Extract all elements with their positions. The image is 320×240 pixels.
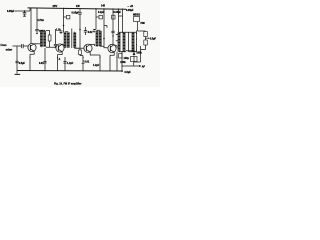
- svg-text:100p: 100p: [124, 57, 130, 60]
- svg-text:MB3/2: MB3/2: [133, 13, 141, 16]
- svg-text:4.7kΩ: 4.7kΩ: [37, 19, 44, 22]
- svg-text:26V: 26V: [53, 4, 58, 8]
- svg-text:mixer: mixer: [6, 49, 12, 52]
- svg-text:From: From: [1, 44, 7, 47]
- svg-text:P80: P80: [141, 22, 146, 25]
- svg-text:0.05µF: 0.05µF: [7, 10, 15, 13]
- svg-text:1.2µF: 1.2µF: [67, 62, 74, 65]
- svg-text:Fig. 19. FM IF amplifier: Fig. 19. FM IF amplifier: [54, 82, 81, 86]
- svg-text:0.5µF: 0.5µF: [150, 38, 157, 41]
- svg-text:0.5µF: 0.5µF: [125, 71, 132, 74]
- svg-text:0.05µF: 0.05µF: [114, 11, 122, 14]
- svg-text:0.02: 0.02: [88, 31, 93, 34]
- svg-text:AF: AF: [142, 65, 146, 68]
- svg-text:0.5µF: 0.5µF: [19, 62, 26, 65]
- svg-text:100k: 100k: [120, 61, 126, 64]
- svg-text:100k: 100k: [136, 52, 142, 55]
- svg-text:0.05µF: 0.05µF: [126, 9, 134, 12]
- svg-text:→ +B: → +B: [127, 5, 133, 8]
- svg-text:145: 145: [101, 4, 106, 7]
- svg-text:1.2µF: 1.2µF: [93, 64, 100, 67]
- svg-text:0.01: 0.01: [85, 61, 90, 64]
- svg-text:0.01: 0.01: [39, 62, 44, 65]
- svg-text:0.05µF: 0.05µF: [72, 12, 80, 15]
- svg-text:A: A: [59, 58, 61, 61]
